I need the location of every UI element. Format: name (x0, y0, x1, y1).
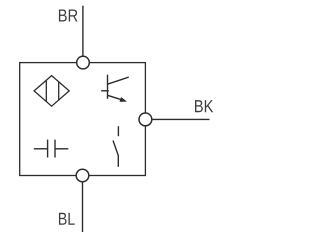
terminal node BK (139, 113, 152, 126)
switch (output contact) (113, 126, 118, 167)
transistor Q1 (NPN output stage) (101, 75, 129, 102)
capacitor C1 (34, 140, 69, 158)
label BL (59, 213, 75, 225)
proximity sensor element (diamond with two bars) (34, 76, 69, 107)
wire BK lead (152, 118, 210, 120)
wire BR lead (82, 6, 84, 57)
terminal node BR (77, 56, 90, 69)
terminal node BL (76, 169, 89, 182)
sensor enclosure box (20, 63, 146, 176)
label BK (195, 100, 213, 112)
label BR (59, 9, 78, 21)
wire BL lead (82, 182, 84, 232)
